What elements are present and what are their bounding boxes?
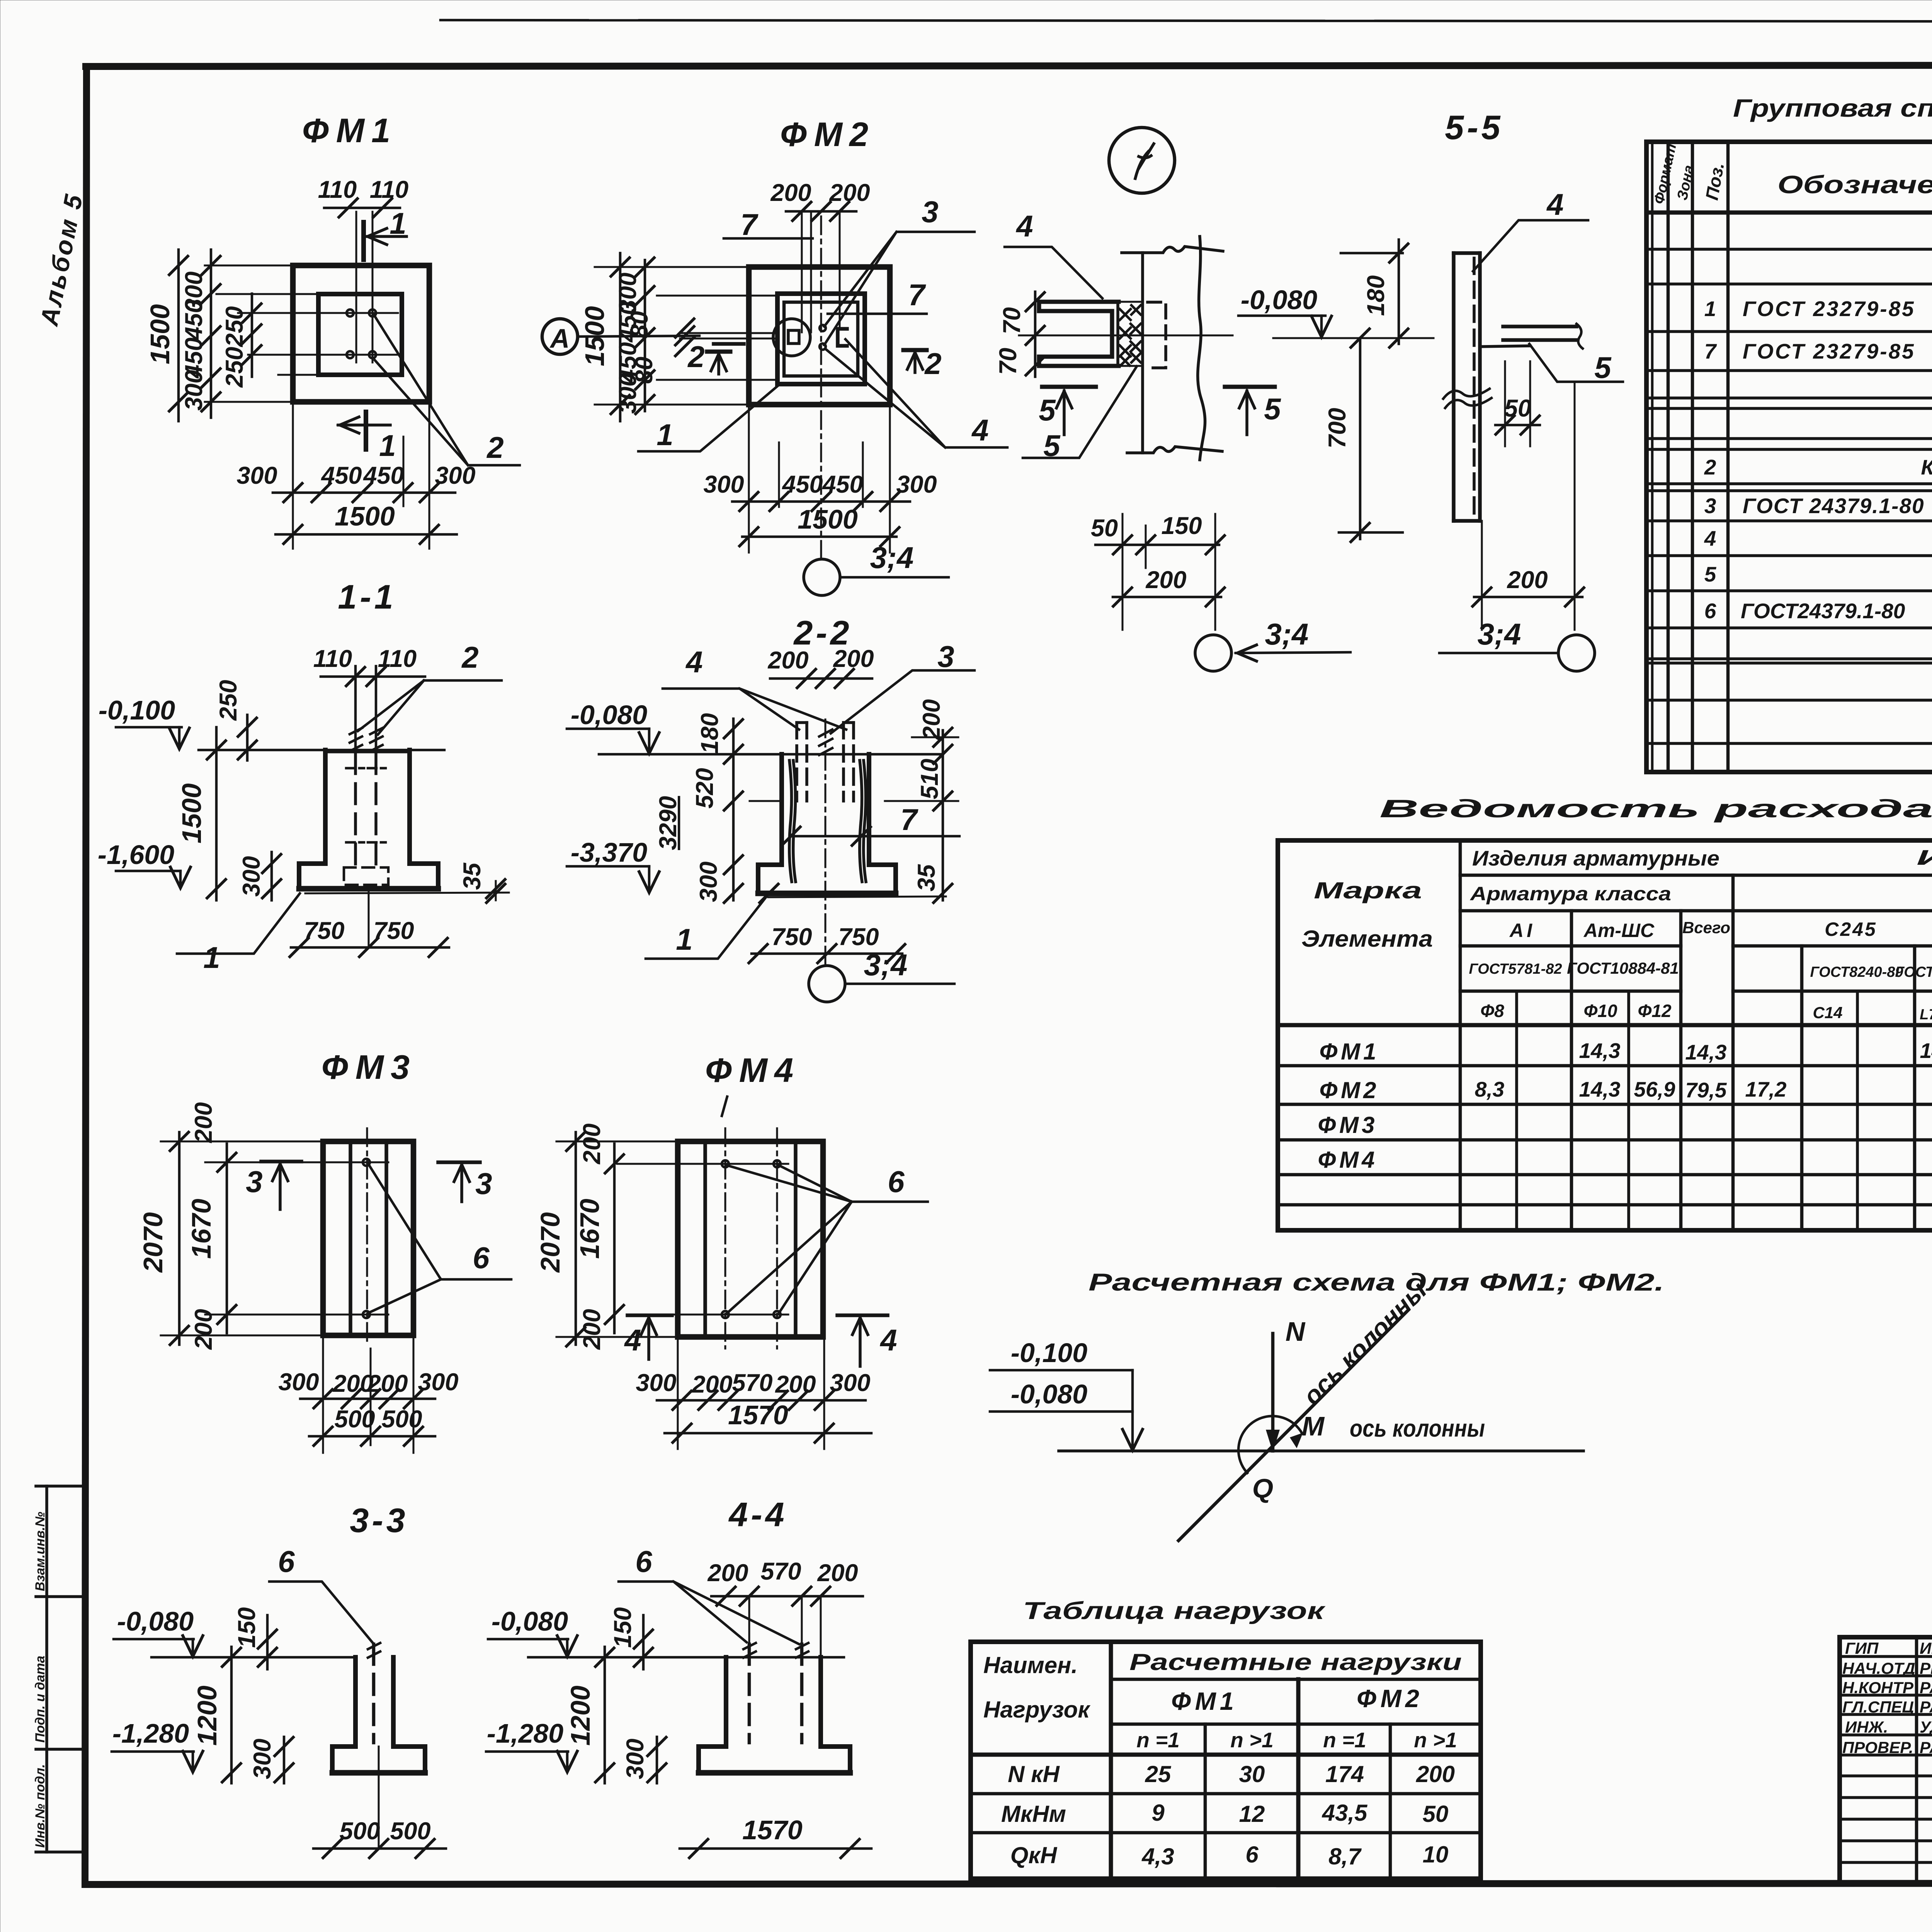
svg-text:14,1: 14,1 <box>1920 1039 1932 1063</box>
FM3 inner verticals <box>349 1141 352 1335</box>
FM1 bottom extension verticals <box>292 402 294 549</box>
svg-text:450: 450 <box>362 462 404 489</box>
svg-text:ГОСТ24379.1-80: ГОСТ24379.1-80 <box>1741 599 1905 623</box>
svg-text:n >1: n >1 <box>1230 1728 1274 1752</box>
svg-text:Расчетная схема для ФМ1; ФМ: Расчетная схема для ФМ1; ФМ2. <box>1088 1269 1664 1296</box>
svg-text:150: 150 <box>233 1607 260 1648</box>
svg-text:-1,280: -1,280 <box>112 1718 189 1748</box>
4-4 bolts dashed <box>748 1644 751 1743</box>
FM2 axis circle bottom <box>804 559 840 595</box>
svg-text:180: 180 <box>1362 275 1389 316</box>
axis A circle <box>542 319 578 354</box>
svg-text:200: 200 <box>707 1560 748 1587</box>
weld leader 5 <box>1023 366 1137 458</box>
svg-text:2070: 2070 <box>138 1212 168 1273</box>
svg-text:АI: АI <box>1509 920 1535 941</box>
svg-text:300: 300 <box>896 471 937 498</box>
svg-text:ФМ3: ФМ3 <box>1318 1112 1378 1138</box>
FM1 left extension lines <box>205 265 293 267</box>
node axis circle with arrow <box>1195 635 1231 671</box>
svg-text:180: 180 <box>696 713 723 753</box>
svg-text:450: 450 <box>180 299 207 341</box>
FM4 section mark 4 left <box>628 1313 672 1317</box>
svg-text:НАЧ.ОТД: НАЧ.ОТД <box>1842 1659 1915 1677</box>
svg-text:1500: 1500 <box>580 306 610 366</box>
svg-text:1500: 1500 <box>145 304 175 364</box>
FM4 bolt row lines <box>617 1163 788 1165</box>
dim 700 <box>1359 338 1362 539</box>
main stamp outer <box>1840 1637 1932 1884</box>
svg-text:500: 500 <box>390 1818 430 1845</box>
svg-text:9: 9 <box>1151 1800 1165 1826</box>
1-1 bolt hatch <box>350 728 383 751</box>
FM1 section mark 1 top <box>361 222 366 260</box>
svg-text:5: 5 <box>1264 392 1281 426</box>
frame left border <box>85 66 87 1884</box>
steel verticals minor <box>1515 991 1518 1230</box>
2-2 top line <box>599 753 943 756</box>
svg-text:1500: 1500 <box>177 783 207 844</box>
svg-text:35: 35 <box>913 864 940 891</box>
svg-text:25: 25 <box>1145 1761 1172 1787</box>
svg-text:150: 150 <box>1161 512 1202 539</box>
steel horizontals <box>1460 874 1932 877</box>
FM3 bolt circles <box>363 1159 370 1166</box>
svg-text:3;4: 3;4 <box>870 541 914 575</box>
FM2 channel mark <box>838 329 847 346</box>
FM1 bolt circles <box>347 310 354 316</box>
svg-text:500: 500 <box>381 1406 422 1433</box>
svg-text:Изделия арматурные: Изделия арматурные <box>1472 846 1719 870</box>
1-1 anchor bolts above ground <box>354 666 357 750</box>
svg-text:ГОСТ10884-81: ГОСТ10884-81 <box>1567 959 1679 977</box>
dim 70 70 <box>1034 292 1037 377</box>
2-2 bedding line <box>768 896 946 897</box>
svg-text:ФМ2: ФМ2 <box>1357 1684 1423 1713</box>
node bottom extension verticals <box>1122 514 1124 630</box>
svg-text:300: 300 <box>278 1369 319 1396</box>
svg-text:ФМ3: ФМ3 <box>321 1048 417 1086</box>
svg-text:6: 6 <box>473 1241 490 1275</box>
svg-text:ГОСТ 23279-85: ГОСТ 23279-85 <box>1743 297 1915 321</box>
svg-text:УДАЛОВА: УДАЛОВА <box>1920 1718 1932 1736</box>
svg-text:7: 7 <box>1704 339 1717 363</box>
FM1 section mark 1 bottom <box>364 412 368 449</box>
svg-text:1570: 1570 <box>742 1815 803 1845</box>
svg-text:174: 174 <box>1325 1761 1364 1787</box>
svg-text:1: 1 <box>203 940 220 975</box>
FM3 dim 1670 + 200 200 <box>226 1144 228 1333</box>
svg-text:70: 70 <box>998 307 1026 334</box>
load table verticals <box>1109 1642 1113 1879</box>
svg-text:1500: 1500 <box>798 504 858 534</box>
svg-text:1200: 1200 <box>192 1685 222 1746</box>
FM2 bottom dim 1500 <box>742 536 896 538</box>
svg-text:Элемента: Элемента <box>1301 926 1433 952</box>
FM1 top dim line 110 110 <box>324 207 400 209</box>
svg-text:С245: С245 <box>1825 918 1877 940</box>
svg-text:1570: 1570 <box>728 1400 788 1430</box>
svg-text:200: 200 <box>918 699 945 740</box>
svg-text:Подп. и дата: Подп. и дата <box>33 1656 48 1743</box>
1-1 bolts dashed <box>354 753 357 867</box>
svg-text:750: 750 <box>771 923 812 951</box>
svg-text:Нагрузок: Нагрузок <box>983 1697 1090 1723</box>
svg-text:ГОСТ5781-82: ГОСТ5781-82 <box>1469 961 1562 977</box>
FM4 bottom dim 1570 <box>665 1432 871 1435</box>
section mark 5 left <box>1042 385 1096 389</box>
3-3 dim 1200 <box>230 1647 233 1783</box>
dashed anchor outline <box>1148 302 1166 368</box>
svg-text:3: 3 <box>475 1167 492 1201</box>
FM3 outline <box>323 1141 413 1335</box>
svg-text:14,3: 14,3 <box>1579 1077 1620 1101</box>
svg-text:РАШЕВСКИЙ: РАШЕВСКИЙ <box>1920 1697 1932 1716</box>
svg-text:5: 5 <box>1594 350 1612 384</box>
svg-text:300: 300 <box>238 856 265 896</box>
svg-text:N кН: N кН <box>1008 1761 1060 1787</box>
svg-text:ГОСТ8240-89: ГОСТ8240-89 <box>1810 964 1903 980</box>
FM2 dim 80 80 <box>714 342 744 346</box>
svg-text:110: 110 <box>318 176 357 203</box>
svg-text:ФМ1: ФМ1 <box>1320 1039 1379 1065</box>
svg-text:570: 570 <box>732 1369 772 1396</box>
4-4 footing bottom <box>699 1770 850 1776</box>
svg-text:4-4: 4-4 <box>728 1495 787 1534</box>
svg-text:ГИП: ГИП <box>1845 1639 1879 1657</box>
svg-text:250: 250 <box>215 680 242 721</box>
svg-text:500: 500 <box>339 1818 380 1845</box>
wall line right wavy <box>1198 236 1205 460</box>
4-4 pedestal outline <box>699 1657 850 1773</box>
FM2 mesh verticals <box>801 211 803 332</box>
force N arrow <box>1271 1333 1275 1451</box>
svg-text:3;4: 3;4 <box>864 948 908 982</box>
svg-text:4: 4 <box>685 645 702 679</box>
svg-text:Ф8: Ф8 <box>1480 1001 1504 1021</box>
svg-text:-0,080: -0,080 <box>117 1606 194 1636</box>
svg-text:4: 4 <box>879 1323 897 1357</box>
steel verticals major <box>1459 840 1462 1230</box>
svg-text:Q: Q <box>1252 1473 1273 1503</box>
wall top edge <box>1122 247 1223 253</box>
svg-text:2070: 2070 <box>535 1212 565 1273</box>
FM4 inner verticals <box>703 1141 707 1337</box>
svg-text:750: 750 <box>838 923 879 951</box>
FM4 dim 2070 <box>575 1132 577 1345</box>
svg-text:Арматура класса: Арматура класса <box>1469 883 1671 905</box>
svg-text:450: 450 <box>614 301 641 343</box>
svg-text:3: 3 <box>937 639 954 673</box>
svg-text:450: 450 <box>821 471 863 498</box>
column axis diagonal <box>1179 1310 1408 1541</box>
4-4 dim 1200 <box>604 1647 606 1783</box>
FM4 outline <box>678 1141 823 1337</box>
svg-text:3-3: 3-3 <box>350 1501 408 1539</box>
svg-text:-3,370: -3,370 <box>571 837 648 867</box>
svg-text:2: 2 <box>1704 455 1716 479</box>
svg-text:7: 7 <box>900 803 918 837</box>
svg-text:750: 750 <box>373 917 414 944</box>
FM4 leader 6 <box>727 1165 928 1313</box>
svg-text:300: 300 <box>703 471 744 498</box>
svg-text:1-1: 1-1 <box>338 578 396 616</box>
svg-text:50: 50 <box>1423 1801 1449 1827</box>
svg-text:Взам.инв.№: Взам.инв.№ <box>33 1512 48 1591</box>
svg-text:300: 300 <box>622 1738 649 1779</box>
svg-text:5: 5 <box>1704 562 1717 586</box>
2-2 bottom dim 750 750 <box>752 952 902 955</box>
svg-text:300: 300 <box>249 1738 276 1779</box>
svg-text:200: 200 <box>829 179 870 206</box>
svg-text:n =1: n =1 <box>1323 1728 1366 1752</box>
2-2 dim 200 200 <box>770 677 872 680</box>
svg-text:79,5: 79,5 <box>1685 1078 1727 1102</box>
svg-text:3: 3 <box>246 1165 262 1199</box>
node axis line <box>1019 335 1233 337</box>
svg-text:200: 200 <box>833 645 874 672</box>
1-1 dim 300 <box>270 852 273 900</box>
level drop arrow <box>1131 1370 1134 1448</box>
svg-text:РЫБКИНА: РЫБКИНА <box>1920 1659 1932 1677</box>
ground axis line <box>1059 1449 1583 1452</box>
svg-text:30: 30 <box>1239 1761 1265 1787</box>
3-3 footing bottom <box>332 1770 425 1776</box>
svg-text:Ведомость расхода стали: Ведомость расхода стали на элемент, кг. <box>1379 794 1932 823</box>
svg-text:ось колонны: ось колонны <box>1350 1415 1485 1442</box>
3-3 dim 300 <box>283 1737 286 1783</box>
svg-text:3290: 3290 <box>655 796 682 850</box>
svg-text:-1,600: -1,600 <box>98 840 175 870</box>
svg-text:6: 6 <box>635 1544 652 1578</box>
detail mark squiggle <box>1135 144 1154 179</box>
frame bottom border <box>85 1883 1932 1884</box>
svg-text:Альбом 5: Альбом 5 <box>35 190 88 329</box>
dim 50 <box>1504 361 1506 446</box>
svg-text:70: 70 <box>995 348 1022 375</box>
svg-text:ИНЖ.: ИНЖ. <box>1845 1718 1888 1736</box>
FM1 bottom dim 1500 <box>276 533 457 536</box>
FM1 anchor block outline <box>318 294 402 375</box>
svg-text:1200: 1200 <box>565 1685 595 1746</box>
svg-text:200: 200 <box>367 1370 408 1397</box>
svg-text:12: 12 <box>1239 1801 1265 1827</box>
axis circle 5-5 <box>1558 635 1595 671</box>
1-1 center axis <box>368 885 370 947</box>
svg-text:500: 500 <box>334 1406 375 1433</box>
4-4 bolt hatch <box>743 1643 808 1658</box>
FM4 stray tick <box>722 1097 727 1116</box>
svg-text:250: 250 <box>221 306 248 347</box>
svg-text:110: 110 <box>378 645 417 672</box>
4-4 dim 150 <box>642 1615 645 1669</box>
left stamp strip vertical line <box>45 1486 48 1852</box>
FM4 section mark 4 right <box>837 1313 888 1317</box>
FM2 detail circle <box>773 319 810 356</box>
svg-text:150: 150 <box>609 1607 636 1648</box>
svg-text:Ф12: Ф12 <box>1638 1001 1671 1021</box>
svg-text:14,3: 14,3 <box>1579 1039 1620 1063</box>
svg-text:200: 200 <box>578 1123 605 1164</box>
svg-text:17,2: 17,2 <box>1745 1077 1786 1101</box>
svg-text:1: 1 <box>389 206 406 240</box>
axis line 5-5 <box>1273 337 1434 339</box>
svg-text:1500: 1500 <box>335 501 395 531</box>
svg-text:300: 300 <box>636 1369 676 1396</box>
2-2 footing bottom <box>758 891 896 896</box>
svg-text:10: 10 <box>1423 1842 1449 1867</box>
svg-text:2: 2 <box>486 430 503 464</box>
svg-text:Н.КОНТР: Н.КОНТР <box>1842 1679 1914 1697</box>
2-2 center hatch <box>819 730 832 755</box>
dim 180 <box>1398 240 1400 344</box>
steel table outer <box>1278 840 1932 1230</box>
svg-text:450: 450 <box>320 462 362 489</box>
svg-text:300: 300 <box>830 1369 870 1396</box>
svg-text:Поз.: Поз. <box>1702 161 1728 202</box>
svg-text:6: 6 <box>1245 1842 1259 1867</box>
1-1 ground top line <box>199 749 444 752</box>
svg-text:200: 200 <box>1145 566 1186 594</box>
1-1 dim 110 110 <box>321 675 425 678</box>
svg-text:-0,080: -0,080 <box>1241 285 1318 315</box>
svg-text:200: 200 <box>1416 1761 1455 1787</box>
section mark 5 right <box>1225 385 1275 389</box>
plate break squiggles <box>1443 389 1492 408</box>
svg-text:2: 2 <box>461 640 478 674</box>
1-1 footing bottom <box>299 886 438 892</box>
FM2 dim 1500 left <box>619 253 622 421</box>
svg-text:4: 4 <box>971 413 988 447</box>
svg-text:Обозначение: Обозначение <box>1777 170 1932 199</box>
svg-text:М: М <box>1302 1411 1325 1441</box>
FM1 bolt row lines <box>238 312 398 314</box>
spec table outer <box>1646 142 1932 772</box>
svg-text:ГОСТ 23279-85: ГОСТ 23279-85 <box>1743 339 1915 363</box>
4-4 bottom dim 1570 <box>680 1847 871 1850</box>
FM4 bottom chain 300 200 570 200 300 <box>657 1399 866 1402</box>
svg-text:Ат-ШС: Ат-ШС <box>1583 920 1655 941</box>
svg-text:1: 1 <box>1704 297 1716 321</box>
svg-text:ПРОВЕР.: ПРОВЕР. <box>1842 1738 1913 1757</box>
svg-text:ФМ1: ФМ1 <box>1171 1687 1238 1715</box>
svg-text:5-5: 5-5 <box>1445 108 1503 146</box>
svg-text:250: 250 <box>221 347 248 388</box>
svg-text:Расчетные нагрузки: Расчетные нагрузки <box>1129 1649 1462 1675</box>
svg-text:ФМ2: ФМ2 <box>780 115 875 153</box>
frame top border <box>86 65 1932 66</box>
1-1 pedestal outline <box>299 750 438 889</box>
svg-text:7: 7 <box>740 207 759 241</box>
grout hatch zone <box>1118 302 1143 366</box>
moment arc <box>1238 1416 1302 1473</box>
FM4 extension lines <box>556 1141 678 1143</box>
3-3 ground line <box>151 1656 354 1659</box>
svg-text:110: 110 <box>313 645 352 672</box>
svg-text:6: 6 <box>1704 599 1716 623</box>
node dim 50 150 <box>1095 544 1219 546</box>
2-2 mesh left <box>789 760 796 882</box>
sheet top edge <box>440 20 1932 22</box>
svg-text:-0,080: -0,080 <box>571 700 648 730</box>
svg-text:С14: С14 <box>1813 1003 1842 1022</box>
svg-text:510: 510 <box>916 759 943 799</box>
FM4 bolt center lines <box>724 1128 726 1349</box>
FM2 column stub rect <box>788 330 799 344</box>
channel flange lines <box>1503 325 1577 328</box>
svg-text:8,7: 8,7 <box>1328 1844 1362 1869</box>
svg-text:МкНм: МкНм <box>1001 1801 1066 1827</box>
FM2 left chain dim 300 450 450 300 <box>644 260 646 411</box>
svg-text:5: 5 <box>1039 393 1056 427</box>
3-3 bottom dim 500 500 <box>313 1847 446 1850</box>
svg-text:Групповая спецификация для мон: Групповая спецификация для монолитных эл… <box>1733 94 1932 122</box>
svg-text:200: 200 <box>691 1371 732 1398</box>
svg-text:1: 1 <box>676 922 692 956</box>
1-1 bottom dim 750 750 <box>291 946 449 949</box>
4-4 dim 300 <box>656 1737 658 1783</box>
FM2 bolt circles <box>820 325 826 331</box>
svg-text:-1,280: -1,280 <box>487 1718 564 1748</box>
load table outer <box>971 1642 1481 1879</box>
svg-text:750: 750 <box>304 917 344 944</box>
svg-text:3: 3 <box>1704 494 1716 518</box>
svg-text:1670: 1670 <box>186 1199 216 1259</box>
FM1 footing outline <box>293 265 429 402</box>
2-2 anchor bolt group right <box>844 721 854 724</box>
FM3 bottom ext verticals <box>322 1335 324 1453</box>
svg-text:n >1: n >1 <box>1414 1728 1457 1752</box>
grout hatch crosses <box>1120 305 1141 366</box>
svg-text:Ф10: Ф10 <box>1583 1001 1617 1021</box>
node dim 200 <box>1113 596 1221 599</box>
bottom dim 200 <box>1481 521 1483 630</box>
FM3 leader 6 <box>368 1164 511 1313</box>
svg-text:Изделия закладные: Изделия закладные <box>1917 845 1932 869</box>
4-4 top dim 200 570 200 <box>711 1595 863 1598</box>
wall line left <box>1141 253 1144 453</box>
3-3 bolt hatch <box>368 1643 380 1658</box>
svg-text:110: 110 <box>370 176 408 203</box>
svg-text:520: 520 <box>691 768 718 808</box>
3-3 dim 150 <box>266 1615 269 1669</box>
FM3 section mark 3 right <box>438 1160 480 1164</box>
svg-text:n =1: n =1 <box>1136 1728 1180 1752</box>
svg-text:200: 200 <box>770 179 811 206</box>
svg-text:450: 450 <box>781 471 823 498</box>
svg-text:4: 4 <box>1546 187 1563 221</box>
svg-text:56,9: 56,9 <box>1634 1077 1675 1101</box>
1-1 dim 1500 <box>215 727 218 900</box>
svg-text:4,3: 4,3 <box>1141 1844 1174 1869</box>
FM1 overall dim 1500 left <box>177 250 180 421</box>
FM2 footing outline <box>749 267 890 405</box>
2-2 mesh right <box>860 760 866 882</box>
svg-text:35: 35 <box>459 862 486 890</box>
svg-text:4: 4 <box>624 1323 641 1357</box>
FM4 dim 1670 + 200 200 <box>613 1144 616 1333</box>
FM3 bolt row lines <box>205 1162 388 1163</box>
FM2 bottom extension verticals <box>748 405 750 553</box>
svg-text:3;4: 3;4 <box>1265 617 1309 651</box>
3-3 center line <box>378 1747 380 1849</box>
svg-text:N: N <box>1286 1316 1306 1347</box>
svg-text:ФМ4: ФМ4 <box>705 1051 800 1089</box>
svg-text:Наимен.: Наимен. <box>983 1652 1078 1678</box>
axis A line <box>578 336 699 337</box>
FM2 pocket outer <box>777 294 865 384</box>
svg-text:43,5: 43,5 <box>1322 1800 1368 1826</box>
